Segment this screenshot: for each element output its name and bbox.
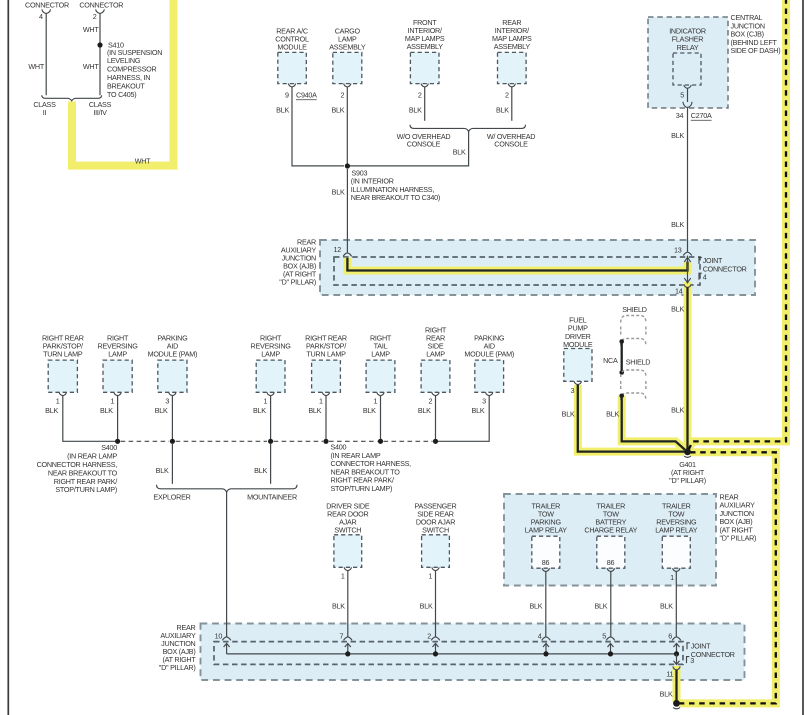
svg-text:1: 1: [319, 397, 323, 406]
svg-text:BLK: BLK: [45, 406, 58, 415]
svg-text:BLK: BLK: [363, 406, 376, 415]
bus junction node: [608, 651, 613, 656]
node splice: [323, 439, 328, 444]
NCA drain wire: [621, 342, 623, 373]
svg-text:WHT: WHT: [83, 25, 99, 34]
joint connector inner box lower: [214, 642, 683, 665]
svg-text:BLK: BLK: [418, 406, 431, 415]
driver side rear door ajar switch box: [334, 535, 362, 568]
svg-text:1: 1: [429, 571, 433, 580]
passenger side rear door ajar switch pin 1: [432, 567, 439, 570]
rear auxiliary junction box lower: [201, 624, 745, 681]
svg-text:RELAY: RELAY: [677, 43, 699, 52]
svg-text:86: 86: [607, 558, 615, 567]
parking aid module A box: [158, 360, 187, 392]
svg-text:STOP/TURN LAMP): STOP/TURN LAMP): [55, 485, 117, 494]
wire S903 to AJB pin 12: [346, 169, 348, 253]
parking aid module B pin 3: [486, 392, 493, 395]
bus junction node: [433, 651, 438, 656]
rear auxiliary junction box upper: [320, 240, 755, 295]
svg-text:BLK: BLK: [594, 602, 607, 611]
wire trailer tow reversing lamp relay to joint connector: [675, 572, 677, 637]
svg-text:BLK: BLK: [331, 106, 344, 115]
dashed wire G401 to bottom ground: [679, 452, 776, 703]
right page border: [802, 0, 804, 715]
rear A/C control module box: [278, 52, 307, 83]
svg-text:"D" PILLAR): "D" PILLAR): [720, 534, 757, 543]
left page border: [7, 0, 9, 715]
svg-text:5: 5: [680, 90, 684, 99]
rear A/C connector pin 9 C940A: [288, 84, 295, 87]
node splice: [378, 439, 383, 444]
svg-text:BLK: BLK: [253, 406, 266, 415]
dashed wire G401 up to page top: [689, 0, 787, 450]
rear interior/map lamps box: [498, 52, 527, 83]
node splice: [433, 439, 438, 444]
driver side rear door ajar switch pin 1: [344, 567, 351, 570]
svg-text:1: 1: [373, 397, 377, 406]
svg-text:BLK: BLK: [660, 602, 673, 611]
joint connector pin 4: [699, 273, 702, 280]
connector symbol 1: [42, 9, 51, 13]
wire right reversing B down: [270, 396, 272, 442]
svg-text:5: 5: [602, 632, 606, 641]
node PAM splice: [170, 439, 175, 444]
wire right rear park lamp to S400: [63, 396, 115, 442]
highlighted dashed wire G401 up right edge: [689, 0, 787, 450]
svg-text:ASSEMBLY: ASSEMBLY: [494, 42, 531, 51]
svg-text:C270A: C270A: [691, 111, 712, 120]
highlighted dashed wire G401 to bottom ground: [679, 452, 776, 703]
svg-text:LAMP: LAMP: [371, 349, 390, 358]
svg-text:BLK: BLK: [100, 406, 113, 415]
splice S903: [345, 163, 350, 168]
svg-text:TURN LAMP: TURN LAMP: [43, 349, 83, 358]
svg-text:BLK: BLK: [156, 466, 169, 475]
bus junction node: [543, 651, 548, 656]
joint connector label: [699, 258, 702, 265]
svg-text:13: 13: [674, 245, 682, 254]
cargo lamp pin 2: [344, 84, 351, 87]
svg-text:2: 2: [418, 90, 422, 99]
svg-text:14: 14: [675, 287, 683, 296]
front interior/map lamps box: [410, 52, 439, 83]
svg-text:CONSOLE: CONSOLE: [407, 139, 441, 148]
svg-text:TO C405): TO C405): [107, 90, 136, 99]
svg-text:BLK: BLK: [332, 602, 345, 611]
splice S410: [97, 42, 102, 47]
dashed splice wire: [176, 440, 267, 442]
highlighted BLK wire AJB pin 14 down to G401: [684, 282, 692, 452]
svg-text:4: 4: [703, 272, 707, 281]
svg-text:WHT: WHT: [83, 62, 99, 71]
svg-text:BLK: BLK: [671, 406, 684, 415]
wire rear interior down: [511, 87, 513, 121]
front interior pin 2: [421, 84, 428, 87]
right reversing lamp B pin 1: [267, 392, 274, 395]
svg-text:BLK: BLK: [409, 106, 422, 115]
wire right reversing lamp to S400: [117, 396, 119, 442]
svg-text:2: 2: [93, 12, 97, 21]
svg-text:BLK: BLK: [276, 106, 289, 115]
svg-text:CONNECTOR: CONNECTOR: [703, 265, 747, 274]
svg-text:CONSOLE: CONSOLE: [494, 139, 528, 148]
wire trailer tow parking lamp relay to joint connector: [545, 572, 547, 637]
ground G401: [684, 448, 691, 455]
trailer tow battery charge relay box: [597, 536, 625, 568]
rear auxiliary junction box trailer relays: [504, 494, 716, 586]
wire parking aid module down: [171, 396, 173, 442]
svg-text:"D" PILLAR): "D" PILLAR): [669, 476, 706, 485]
svg-text:MODULE: MODULE: [563, 340, 593, 349]
wire front interior down: [424, 87, 426, 121]
svg-text:MOUNTAINEER: MOUNTAINEER: [247, 493, 297, 502]
svg-text:BLK: BLK: [420, 602, 433, 611]
svg-text:BLK: BLK: [472, 406, 485, 415]
svg-text:7: 7: [340, 632, 344, 641]
svg-text:LAMP: LAMP: [108, 349, 127, 358]
svg-text:MODULE: MODULE: [277, 42, 307, 51]
right rear side lamp box: [421, 360, 450, 392]
wire brace to AJB pin 10: [226, 492, 228, 636]
highlighted BLK wire AJB pin 11 to ground: [673, 666, 681, 703]
wire console brace to S903: [347, 132, 468, 166]
svg-text:6: 6: [668, 632, 672, 641]
svg-text:3: 3: [690, 656, 694, 665]
wire PAM splice down to explorer brace: [171, 444, 173, 484]
joint connector bus wire: [227, 653, 677, 655]
highlighted BLK wire fuel pump driver module to G401: [578, 385, 684, 452]
svg-text:86: 86: [542, 558, 550, 567]
svg-text:BLK: BLK: [155, 406, 168, 415]
right rear side lamp pin 2: [432, 392, 439, 395]
svg-text:34: 34: [676, 111, 684, 120]
highlighted wire core pin14 to G401: [686, 287, 688, 449]
right reversing lamp B box: [256, 360, 285, 392]
svg-text:"D" PILLAR): "D" PILLAR): [279, 278, 316, 287]
wire C270A to AJB pin 13: [687, 107, 689, 251]
wire right tail lamp down: [380, 396, 382, 442]
pin 14 exit: [687, 271, 689, 284]
wire cargo lamp to S903: [346, 87, 348, 166]
right rear park/stop/turn lamp A box: [48, 360, 77, 392]
svg-text:1: 1: [670, 573, 674, 582]
svg-text:C940A: C940A: [296, 90, 317, 99]
dashed splice wire: [329, 440, 378, 442]
svg-text:12: 12: [334, 245, 342, 254]
svg-text:2: 2: [427, 632, 431, 641]
svg-text:2: 2: [428, 397, 432, 406]
shield symbol upper: [621, 316, 646, 323]
right rear park/stop/turn lamp B pin 1: [322, 392, 329, 395]
svg-text:BLK: BLK: [529, 602, 542, 611]
shield symbol lower: [621, 370, 646, 377]
highlighted BLK shield drain wire to G401: [622, 396, 688, 451]
svg-text:LAMP: LAMP: [261, 349, 280, 358]
FPDM ground wire core: [578, 385, 685, 452]
cargo lamp assembly box: [333, 52, 362, 83]
class brace: [42, 95, 102, 101]
svg-text:BLK: BLK: [671, 131, 684, 140]
svg-text:ASSEMBLY: ASSEMBLY: [407, 42, 444, 51]
wire connector1 down: [45, 13, 47, 95]
dashed splice wire: [384, 440, 433, 442]
svg-text:BLK: BLK: [606, 410, 619, 419]
svg-text:1: 1: [264, 397, 268, 406]
wire reversing splice down to mountaineer brace: [270, 444, 272, 484]
rear interior pin 2: [508, 84, 515, 87]
svg-text:II: II: [43, 108, 47, 117]
svg-text:9: 9: [285, 90, 289, 99]
joint connector pin 3: [687, 657, 690, 664]
joint connector label lower: [687, 643, 690, 650]
svg-text:4: 4: [39, 12, 43, 21]
connector symbol 2: [96, 9, 105, 13]
svg-text:3: 3: [482, 397, 486, 406]
svg-text:WHT: WHT: [28, 62, 44, 71]
svg-text:NCA: NCA: [603, 356, 618, 365]
pin 13 exit arrow: [687, 256, 689, 271]
svg-text:2: 2: [505, 90, 509, 99]
svg-text:STOP/TURN LAMP): STOP/TURN LAMP): [331, 484, 393, 493]
joint connector inner box upper: [334, 257, 700, 285]
svg-text:NEAR BREAKOUT TO C340): NEAR BREAKOUT TO C340): [351, 193, 440, 202]
svg-text:SIDE OF DASH): SIDE OF DASH): [731, 46, 781, 55]
wire relay to C270A: [687, 88, 689, 102]
dashed splice wire: [274, 440, 323, 442]
highlighted WHT wire (class II/III-IV trailer tow feed): [72, 0, 174, 166]
trailer tow reversing lamp relay box: [662, 536, 690, 568]
central junction box CJB: [648, 17, 728, 108]
svg-text:BLK: BLK: [562, 410, 575, 419]
svg-text:TURN LAMP: TURN LAMP: [306, 349, 346, 358]
pin 11 exit: [676, 654, 678, 665]
svg-text:1: 1: [111, 397, 115, 406]
svg-text:3: 3: [165, 397, 169, 406]
svg-text:SWITCH: SWITCH: [422, 525, 449, 534]
right rear park/stop/turn lamp B box: [312, 360, 341, 392]
svg-text:SHIELD: SHIELD: [626, 358, 651, 367]
svg-text:EXPLORER: EXPLORER: [153, 493, 190, 502]
svg-text:CHARGE RELAY: CHARGE RELAY: [584, 525, 637, 534]
indicator flasher relay box: [673, 53, 701, 85]
dashed splice wire: [121, 440, 169, 442]
wire right rear park B down: [325, 396, 327, 442]
bus junction node: [674, 651, 679, 656]
wire trailer tow battery charge relay to joint connector: [610, 572, 612, 637]
svg-text:CONNECTOR: CONNECTOR: [79, 1, 123, 10]
FPDM pin 3: [574, 381, 581, 384]
svg-text:SWITCH: SWITCH: [334, 525, 361, 534]
svg-text:WHT: WHT: [135, 157, 151, 166]
svg-text:2: 2: [340, 90, 344, 99]
parking aid module A pin 3: [169, 392, 176, 395]
svg-text:BLK: BLK: [308, 406, 321, 415]
wire parking aid module B to splice: [438, 396, 489, 442]
svg-text:BLK: BLK: [496, 106, 509, 115]
relay pin 5: [684, 85, 691, 88]
highlighted BLK wire S903 to AJB joint connector bus: [347, 258, 687, 271]
passenger side rear door ajar switch box: [422, 535, 450, 568]
fuel pump driver module box: [564, 349, 592, 382]
highlighted wire core pin11 to ground: [675, 670, 677, 701]
svg-text:SHIELD: SHIELD: [622, 305, 647, 314]
svg-text:3: 3: [571, 386, 575, 395]
right reversing lamp A box: [103, 360, 132, 392]
svg-text:10: 10: [215, 632, 223, 641]
svg-text:BLK: BLK: [671, 220, 684, 229]
svg-text:1: 1: [341, 571, 345, 580]
shield drain node 2: [619, 370, 624, 375]
wire rear A/C to S903: [292, 87, 344, 166]
svg-text:BLK: BLK: [254, 466, 267, 475]
svg-text:MODULE (PAM): MODULE (PAM): [464, 349, 514, 358]
svg-text:4: 4: [538, 632, 542, 641]
wire driver side rear door ajar switch to joint connector: [347, 571, 349, 637]
parking aid module B box: [475, 360, 504, 392]
connector C270A pin 34: [683, 102, 692, 108]
wire connector2 down: [99, 13, 101, 95]
ground at right D pillar: [673, 700, 680, 707]
right reversing lamp A pin 1: [114, 392, 121, 395]
overhead console brace: [410, 125, 526, 132]
svg-text:"D" PILLAR): "D" PILLAR): [159, 663, 196, 672]
svg-text:BLK: BLK: [671, 305, 684, 314]
node splice: [268, 439, 273, 444]
splice S400: [115, 439, 120, 444]
bus junction node: [345, 651, 350, 656]
right tail lamp pin 1: [377, 392, 384, 395]
svg-text:CONNECTOR: CONNECTOR: [691, 650, 735, 659]
highlighted bus wire core: [347, 258, 687, 271]
right tail lamp box: [366, 360, 395, 392]
svg-text:LAMP RELAY: LAMP RELAY: [655, 525, 697, 534]
svg-text:III/IV: III/IV: [93, 108, 107, 117]
wire right rear side lamp down: [435, 396, 437, 442]
svg-text:BLK: BLK: [332, 188, 345, 197]
svg-text:ASSEMBLY: ASSEMBLY: [329, 42, 366, 51]
wire passenger side rear door ajar switch to joint connector: [435, 571, 437, 637]
svg-text:CONNECTOR: CONNECTOR: [25, 1, 69, 10]
shield drain node: [619, 339, 624, 344]
svg-text:BLK: BLK: [453, 148, 466, 157]
svg-text:LAMP RELAY: LAMP RELAY: [525, 525, 567, 534]
svg-text:1: 1: [56, 397, 60, 406]
explorer/mountaineer brace: [157, 485, 298, 492]
trailer tow parking lamp relay box: [532, 536, 560, 568]
svg-text:LAMP: LAMP: [426, 349, 445, 358]
shield drain node 3: [619, 394, 624, 399]
svg-text:11: 11: [666, 669, 673, 678]
right rear park/stop/turn lamp A pin 1: [59, 392, 66, 395]
shield ground wire core: [622, 396, 685, 450]
svg-text:MODULE (PAM): MODULE (PAM): [148, 349, 198, 358]
svg-text:BLK: BLK: [660, 690, 673, 699]
